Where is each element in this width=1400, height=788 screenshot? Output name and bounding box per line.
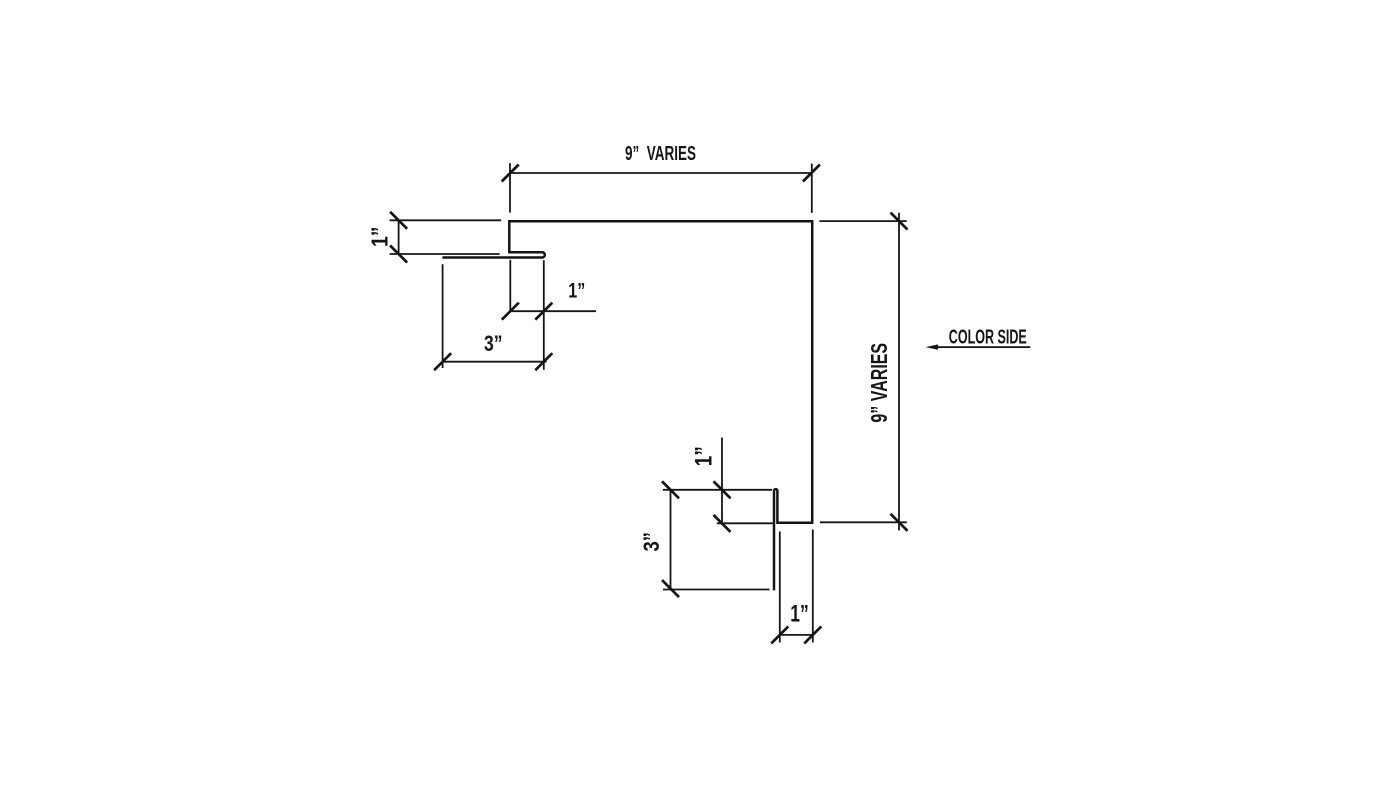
svg-text:COLOR SIDE: COLOR SIDE <box>949 325 1027 348</box>
svg-text:1”: 1” <box>691 446 718 466</box>
svg-text:1”: 1” <box>367 227 393 248</box>
svg-text:1”: 1” <box>568 278 585 302</box>
svg-text:1”: 1” <box>790 601 809 628</box>
svg-text:9” VARIES: 9” VARIES <box>866 343 892 423</box>
svg-text:9” VARIES: 9” VARIES <box>625 142 696 165</box>
svg-text:3”: 3” <box>484 331 503 356</box>
svg-text:3”: 3” <box>639 532 664 552</box>
